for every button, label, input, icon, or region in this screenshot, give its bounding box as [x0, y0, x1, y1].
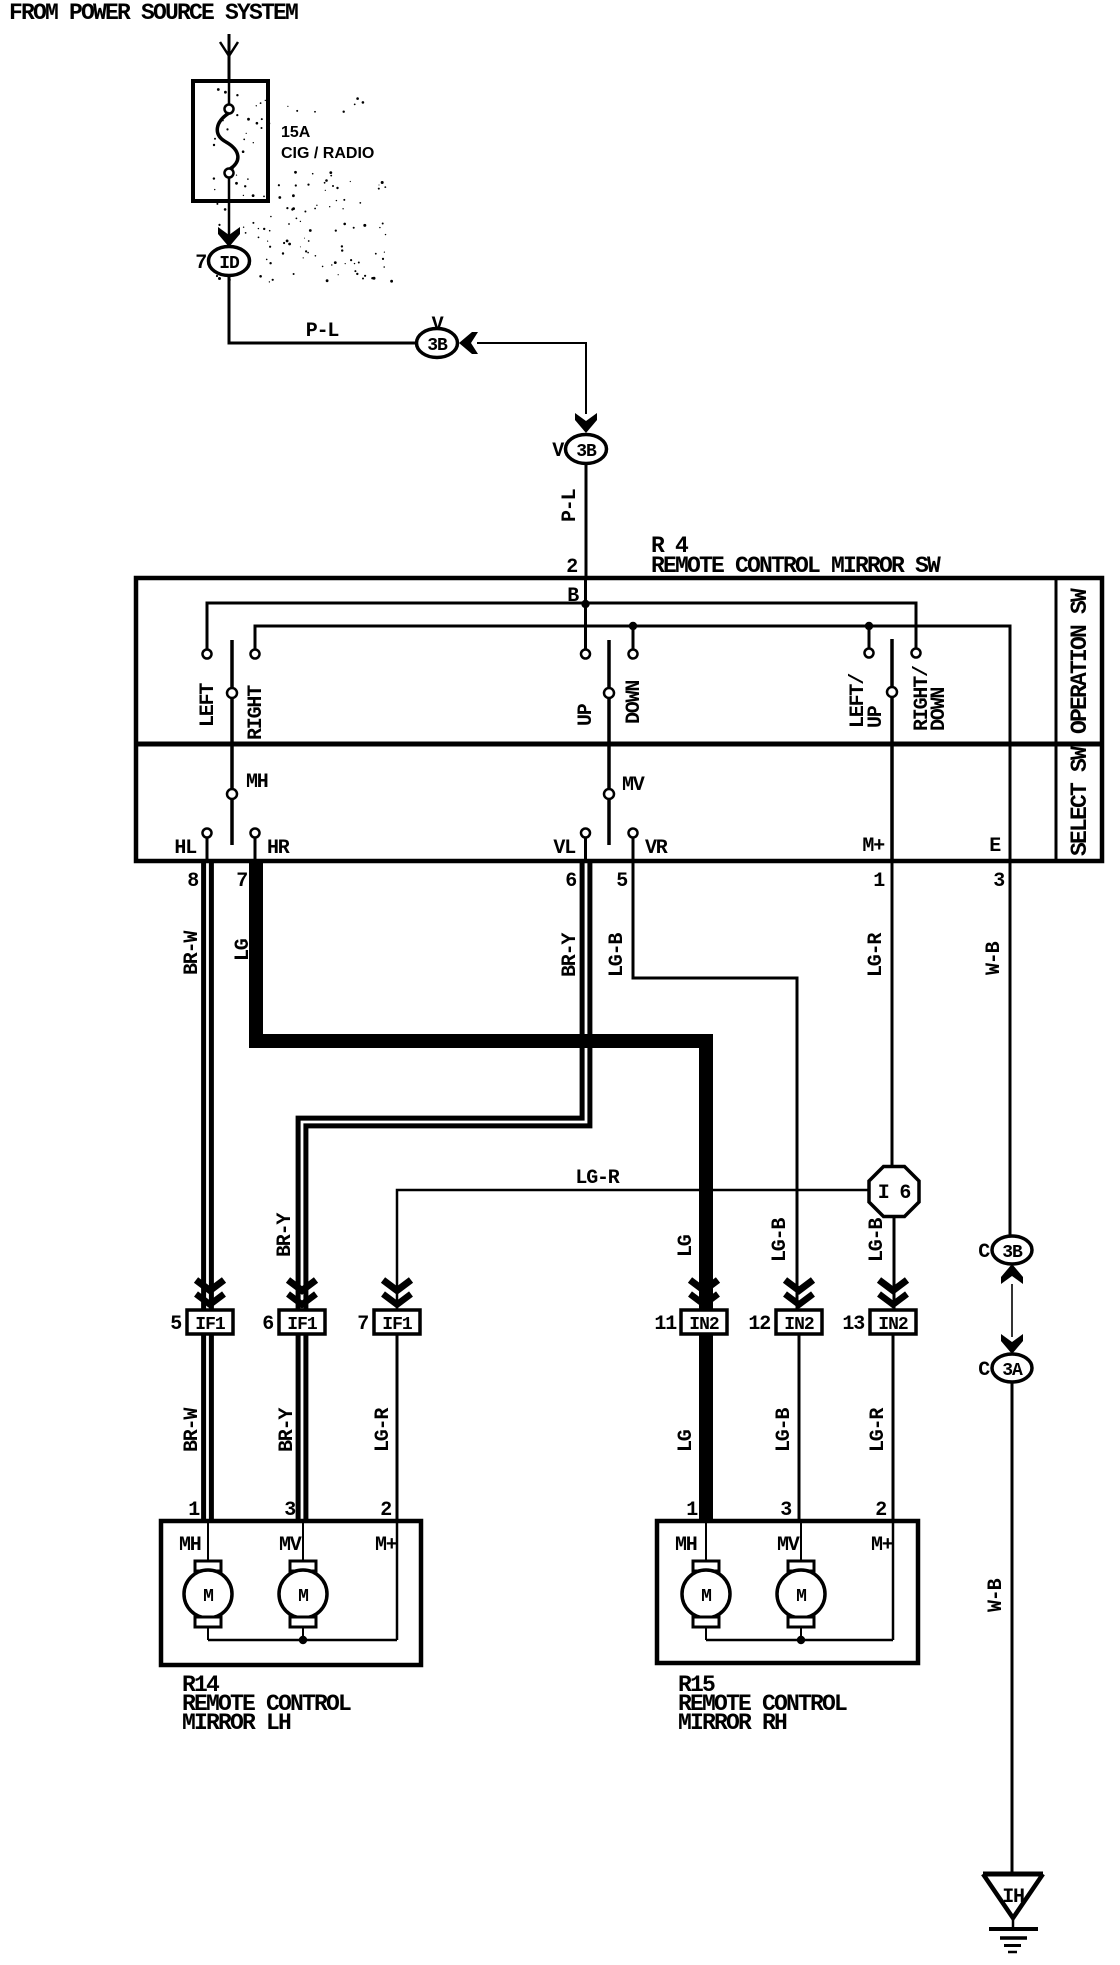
- svg-text:LG-B: LG-B: [773, 1408, 796, 1452]
- connector 7 ID: [218, 227, 240, 247]
- connector 11 IN2: [690, 1280, 718, 1291]
- svg-text:13: 13: [842, 1313, 864, 1336]
- svg-text:M+: M+: [871, 1534, 894, 1557]
- svg-text:M: M: [701, 1587, 711, 1607]
- contact HL: [203, 829, 212, 838]
- connector 12 IN2: [785, 1280, 813, 1291]
- svg-text:UP: UP: [575, 703, 598, 726]
- svg-text:7: 7: [236, 870, 247, 893]
- contact RIGHT: [251, 650, 260, 659]
- motor M: [800, 1521, 802, 1561]
- svg-text:12: 12: [748, 1313, 770, 1336]
- svg-text:MIRROR LH: MIRROR LH: [182, 1710, 291, 1736]
- wire P-L pin 2: [585, 463, 588, 578]
- connector V 3B left: [417, 329, 458, 358]
- svg-text:LG: LG: [675, 1429, 698, 1452]
- svg-text:DOWN: DOWN: [623, 681, 646, 724]
- svg-text:IF1: IF1: [195, 1315, 226, 1335]
- wire LG thick HR to IN2-11: [256, 861, 706, 1310]
- wire LG-B IN2-12 to R15: [798, 1334, 801, 1521]
- wire BR-Y IF1-6 to R14: [296, 1334, 301, 1521]
- svg-text:OPERATION SW: OPERATION SW: [1067, 588, 1093, 734]
- svg-text:2: 2: [566, 556, 577, 579]
- svg-text:MH: MH: [246, 771, 268, 794]
- connector 5 IF1: [196, 1280, 224, 1291]
- svg-text:MH: MH: [675, 1534, 697, 1557]
- svg-text:UP: UP: [865, 705, 888, 728]
- svg-text:REMOTE CONTROL MIRROR SW: REMOTE CONTROL MIRROR SW: [651, 553, 941, 579]
- svg-text:MH: MH: [179, 1534, 201, 1557]
- svg-text:W-B: W-B: [985, 1578, 1008, 1612]
- wire LG-B VR to IN2-12: [633, 861, 797, 1310]
- wire M+ internal: [892, 1521, 895, 1640]
- svg-text:LG-R: LG-R: [867, 1408, 890, 1452]
- switch lever MH: [230, 640, 234, 845]
- svg-text:LG-R: LG-R: [575, 1167, 619, 1190]
- svg-text:15A: 15A: [281, 124, 311, 141]
- connector 6 IF1: [288, 1280, 316, 1291]
- motor M: [302, 1521, 304, 1561]
- svg-text:2: 2: [875, 1499, 886, 1522]
- svg-text:M: M: [203, 1587, 213, 1607]
- svg-text:11: 11: [654, 1313, 677, 1336]
- svg-text:P-L: P-L: [306, 320, 339, 343]
- svg-text:2: 2: [380, 1499, 391, 1522]
- switch lever MV: [607, 640, 611, 845]
- svg-text:IF1: IF1: [382, 1315, 413, 1335]
- svg-text:LG-R: LG-R: [865, 933, 888, 977]
- svg-text:CIG / RADIO: CIG / RADIO: [281, 145, 374, 162]
- svg-text:3B: 3B: [1002, 1243, 1023, 1263]
- wire LG-R M+ to I6: [891, 861, 894, 1166]
- svg-text:M+: M+: [862, 835, 885, 858]
- svg-text:BR-W: BR-W: [181, 1408, 204, 1452]
- svg-text:3: 3: [284, 1499, 295, 1522]
- connector V 3B right: [566, 435, 607, 464]
- wire W-B to ground: [1011, 1382, 1014, 1874]
- wire BR-W IF1-5 to R14: [201, 1334, 206, 1521]
- svg-text:1: 1: [686, 1499, 698, 1522]
- svg-text:DOWN: DOWN: [928, 688, 951, 731]
- svg-text:7: 7: [195, 252, 206, 275]
- svg-text:IH: IH: [1002, 1886, 1024, 1909]
- svg-text:V: V: [552, 440, 564, 463]
- svg-text:LG-B: LG-B: [866, 1218, 889, 1262]
- svg-text:VL: VL: [553, 837, 575, 860]
- svg-text:LEFT: LEFT: [197, 683, 220, 727]
- svg-text:LG-B: LG-B: [769, 1218, 792, 1262]
- svg-text:3B: 3B: [427, 336, 448, 356]
- svg-text:MV: MV: [622, 774, 645, 797]
- svg-text:5: 5: [170, 1313, 181, 1336]
- svg-text:C: C: [978, 1359, 990, 1382]
- node B junction: [581, 600, 589, 608]
- svg-text:C: C: [978, 1241, 990, 1264]
- wire drop DOWN: [632, 626, 635, 649]
- wire LG-R IN2-13 to R15: [892, 1334, 895, 1521]
- motor M: [207, 1521, 209, 1561]
- svg-text:6: 6: [565, 870, 576, 893]
- wire bus 1: [207, 603, 916, 649]
- svg-text:V: V: [432, 314, 444, 337]
- svg-text:I 6: I 6: [878, 1182, 911, 1205]
- wire bus 2: [255, 626, 1010, 859]
- contact VR: [629, 829, 638, 838]
- ground IH: [983, 1872, 1043, 1877]
- svg-text:IN2: IN2: [878, 1315, 908, 1335]
- svg-text:6: 6: [262, 1313, 273, 1336]
- svg-text:HL: HL: [174, 837, 196, 860]
- svg-text:SELECT SW: SELECT SW: [1067, 746, 1093, 856]
- contact RIGHT/DOWN: [912, 649, 921, 658]
- svg-text:FROM POWER SOURCE SYSTEM: FROM POWER SOURCE SYSTEM: [9, 0, 298, 26]
- svg-text:RIGHT: RIGHT: [245, 685, 268, 740]
- mirror R15 REMOTE CONTROL MIRROR RH: [657, 1521, 918, 1663]
- svg-text:B: B: [567, 585, 579, 608]
- svg-text:W-B: W-B: [983, 941, 1006, 975]
- svg-text:IN2: IN2: [784, 1315, 814, 1335]
- wire BR-Y VL to IF1-6: [298, 861, 582, 1310]
- svg-text:BR-W: BR-W: [181, 931, 204, 975]
- svg-text:IN2: IN2: [689, 1315, 719, 1335]
- wire drop LEFT/UP: [868, 626, 871, 649]
- svg-text:BR-Y: BR-Y: [276, 1408, 299, 1452]
- svg-text:VR: VR: [645, 837, 668, 860]
- contact LEFT/UP: [865, 649, 874, 658]
- contact DOWN: [629, 650, 638, 659]
- connector 13 IN2: [879, 1280, 907, 1291]
- svg-text:7: 7: [357, 1313, 368, 1336]
- svg-text:ID: ID: [219, 254, 240, 274]
- svg-text:3B: 3B: [576, 442, 597, 462]
- svg-text:BR-Y: BR-Y: [559, 933, 582, 977]
- svg-text:IF1: IF1: [287, 1315, 318, 1335]
- svg-text:MV: MV: [777, 1534, 800, 1557]
- svg-text:BR-Y: BR-Y: [274, 1213, 297, 1257]
- svg-text:3: 3: [993, 870, 1004, 893]
- wire LG-R IF1-7 to R14: [396, 1334, 399, 1521]
- wire to switch: [477, 342, 587, 344]
- wire from power source: [228, 34, 231, 81]
- wire LG-R IF1-7 to I6: [397, 1190, 869, 1310]
- connector C 3A: [992, 1354, 1032, 1382]
- svg-text:3: 3: [780, 1499, 791, 1522]
- wire LG thick IN2-11 to R15: [699, 1334, 713, 1521]
- svg-text:8: 8: [187, 870, 198, 893]
- svg-text:1: 1: [188, 1499, 200, 1522]
- svg-text:1: 1: [873, 870, 885, 893]
- svg-text:LG-R: LG-R: [372, 1408, 395, 1452]
- wire LG-B I6 to IN2-13: [893, 1216, 896, 1310]
- wire W-B E to C3B: [1009, 861, 1012, 1236]
- connector 7 IF1: [383, 1280, 411, 1291]
- svg-text:MIRROR RH: MIRROR RH: [678, 1710, 787, 1736]
- svg-text:M: M: [796, 1587, 806, 1607]
- svg-text:LG: LG: [232, 938, 255, 961]
- svg-text:MV: MV: [279, 1534, 302, 1557]
- svg-text:LG-B: LG-B: [606, 933, 629, 977]
- wire B: [584, 578, 587, 649]
- switch lever M+ select: [890, 639, 894, 861]
- stipple scan noise: [213, 88, 393, 283]
- contact UP: [581, 650, 590, 659]
- wire BR-W HL to IF1-5: [201, 861, 206, 1310]
- contact HR: [251, 829, 260, 838]
- svg-text:3A: 3A: [1002, 1361, 1023, 1381]
- wire P-L: [228, 275, 231, 345]
- svg-text:M: M: [298, 1587, 308, 1607]
- wire M+ internal: [396, 1521, 399, 1640]
- svg-text:HR: HR: [267, 837, 290, 860]
- connector C 3B: [992, 1236, 1032, 1264]
- svg-text:LG: LG: [675, 1234, 698, 1257]
- motor M: [705, 1521, 707, 1561]
- contact LEFT: [203, 650, 212, 659]
- svg-text:P-L: P-L: [559, 489, 582, 522]
- fuse 15A CIG/RADIO: [193, 81, 268, 201]
- mirror R14 REMOTE CONTROL MIRROR LH: [161, 1521, 421, 1665]
- svg-text:M+: M+: [375, 1534, 398, 1557]
- svg-text:E: E: [989, 835, 1001, 858]
- contact VL: [581, 829, 590, 838]
- junction I 6: [869, 1167, 919, 1217]
- svg-text:5: 5: [616, 870, 627, 893]
